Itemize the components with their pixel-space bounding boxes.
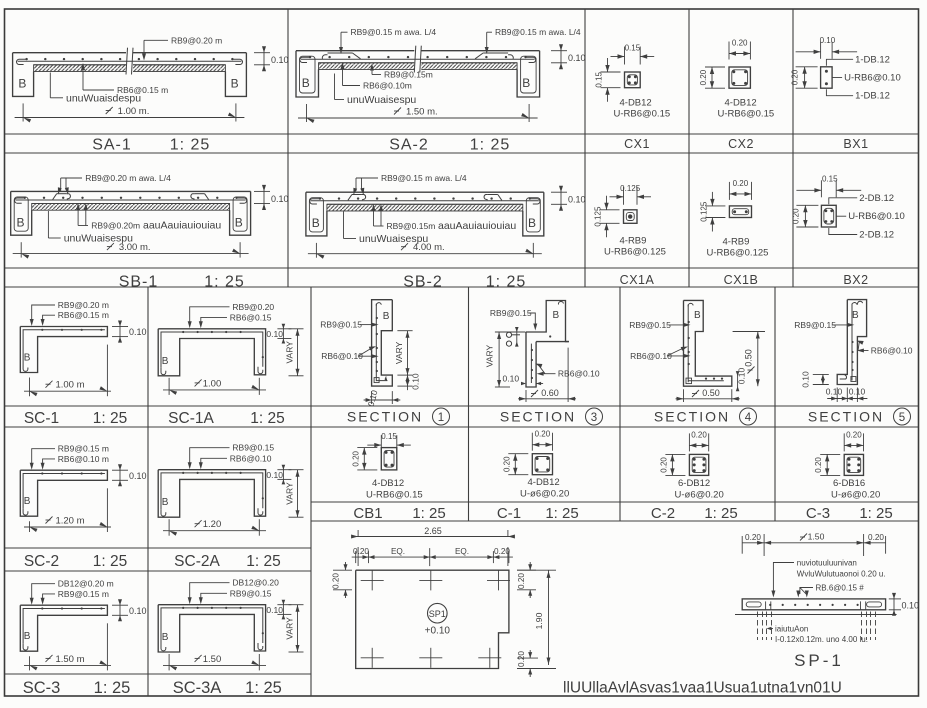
svg-text:BX2: BX2 <box>843 273 868 287</box>
svg-text:CX1A: CX1A <box>620 273 655 287</box>
svg-text:iaiutuAon: iaiutuAon <box>775 625 808 634</box>
SC-2A rebar bar with dots <box>161 473 263 509</box>
grid vertical: SCA/right-area divider <box>310 287 312 696</box>
section3 hook top right <box>558 301 563 304</box>
svg-text:1: 25: 1: 25 <box>412 505 445 522</box>
C-1 stirrup tie <box>535 457 550 472</box>
svg-text:0.10: 0.10 <box>503 374 520 384</box>
SC-3A span dim 1.50 <box>168 654 170 670</box>
grid vertical: section4/5 divider <box>774 287 776 521</box>
svg-text:aauAauiauiouiau: aauAauiauiouiau <box>438 220 516 232</box>
svg-text:0.125: 0.125 <box>699 201 708 222</box>
svg-text:1: 25: 1: 25 <box>250 410 284 427</box>
BX2 top bar label 2-DB.12 <box>829 198 857 205</box>
CB1 stirrup tie <box>384 450 394 467</box>
svg-text:RB9@0.15m: RB9@0.15m <box>387 221 436 231</box>
svg-text:unuWuaisdespu: unuWuaisdespu <box>66 93 141 105</box>
svg-text:0.20: 0.20 <box>868 533 884 542</box>
BX2 stirrup tie <box>824 208 834 224</box>
svg-text:1: 25: 1: 25 <box>245 679 282 697</box>
SA-1 thickness dim 0.10 <box>254 52 270 54</box>
SC-1 span dim 1.00 m <box>29 378 31 397</box>
SC-1A rebar bar with dots <box>161 332 263 368</box>
SA-2 slab centre break line <box>414 46 421 73</box>
svg-text:B: B <box>852 310 859 321</box>
svg-text:RB9@0.15: RB9@0.15 <box>232 443 274 453</box>
svg-text:0.20: 0.20 <box>494 547 510 556</box>
svg-text:SC-2: SC-2 <box>24 553 59 570</box>
section3 stub thickness dim 0.10 <box>516 328 518 346</box>
SA-2 precast plank hatched band <box>319 63 518 70</box>
svg-text:0.20: 0.20 <box>517 651 526 667</box>
svg-text:RB9@0.15: RB9@0.15 <box>490 308 532 318</box>
svg-text:1.50: 1.50 <box>808 532 825 542</box>
svg-text:1: 25: 1: 25 <box>859 505 892 522</box>
section3 bottom dim 0.60 <box>525 390 527 402</box>
svg-text:2-DB.12: 2-DB.12 <box>859 193 894 204</box>
svg-text:U-ø6@0.20: U-ø6@0.20 <box>520 489 569 500</box>
pile slab detail SP-1 outline <box>742 599 885 610</box>
svg-text:1: 25: 1: 25 <box>470 137 511 154</box>
svg-text:DB12@0.20 m: DB12@0.20 m <box>58 579 114 589</box>
svg-text:2-DB.12: 2-DB.12 <box>859 230 894 241</box>
svg-text:B: B <box>162 497 169 508</box>
SB-1 beam stirrups <box>14 197 28 231</box>
grid vertical: CX1/CX2 divider <box>688 9 690 287</box>
SP1 bubble label <box>428 603 448 623</box>
SB-2 thickness dim 0.10 <box>551 191 567 193</box>
SB-1 span dimension 3.00 m. <box>20 242 22 257</box>
column section CX1A outline <box>624 210 638 224</box>
svg-text:0.20: 0.20 <box>535 430 551 439</box>
svg-text:U-RB6@0.125: U-RB6@0.125 <box>707 248 769 259</box>
section4 bottom dim 0.50 <box>683 389 685 402</box>
C-3 rebar dots <box>848 458 851 461</box>
svg-text:B: B <box>528 216 536 230</box>
svg-text:RB6@0.15: RB6@0.15 <box>230 312 272 322</box>
CX1B rebar dots <box>733 210 736 213</box>
svg-text:0.10: 0.10 <box>737 367 747 384</box>
svg-text:1.50 m.: 1.50 m. <box>406 107 438 118</box>
svg-text:SP1: SP1 <box>429 609 446 619</box>
svg-text:SC-1A: SC-1A <box>168 410 214 427</box>
svg-text:4-RB9: 4-RB9 <box>620 236 647 247</box>
svg-text:0.20: 0.20 <box>846 430 862 439</box>
SC-2 span dim 1.20 m <box>29 521 31 532</box>
SA-2 span dimension 1.50 m. <box>306 104 308 122</box>
svg-text:1.50: 1.50 <box>203 654 222 665</box>
svg-text:B: B <box>522 76 530 90</box>
section3 rebar line and dots <box>530 344 532 383</box>
svg-text:U-RB6@0.15: U-RB6@0.15 <box>614 109 671 120</box>
SC-3A rebar bar with dots <box>161 608 263 644</box>
CB1 rebar dots <box>385 451 388 454</box>
SP-1 thickness dim 0.10 <box>889 598 901 600</box>
precast slab section SA-1 outline <box>13 52 247 54</box>
svg-text:0.15: 0.15 <box>822 174 838 183</box>
washing-slab plan SP1 outline <box>356 570 509 668</box>
svg-text:1.90: 1.90 <box>534 612 544 629</box>
svg-text:RB.6@0.15 #: RB.6@0.15 # <box>816 584 865 593</box>
SC-1A span dim 1.00 <box>168 378 170 395</box>
svg-text:RB9@0.20: RB9@0.20 <box>232 302 274 312</box>
C-3 stirrup tie <box>847 457 861 472</box>
svg-text:VARY: VARY <box>285 482 295 505</box>
svg-text:B: B <box>302 76 310 90</box>
svg-text:CB1: CB1 <box>353 505 382 522</box>
svg-text:B: B <box>24 353 31 364</box>
CX1 stirrup tie <box>627 75 637 85</box>
SP-1 pile top edge lines <box>765 601 767 609</box>
svg-text:RB9@0.15 m: RB9@0.15 m <box>58 589 109 599</box>
SA-1 span dimension 1.00 m. <box>22 103 24 121</box>
svg-text:RB6@0.10: RB6@0.10 <box>230 453 272 463</box>
svg-text:0.10: 0.10 <box>271 194 289 204</box>
svg-text:1.00 m.: 1.00 m. <box>118 106 150 117</box>
svg-text:+0.10: +0.10 <box>425 626 451 637</box>
kerb section SC-2 outline <box>20 470 107 516</box>
beam section BX1 outline <box>821 67 833 88</box>
BX2 stirrup label U-RB6@0.10 <box>836 215 846 217</box>
svg-text:1: 25: 1: 25 <box>204 274 245 291</box>
svg-text:U-RB6@0.15: U-RB6@0.15 <box>366 490 423 501</box>
svg-text:RB9@0.15 m awa. L/4: RB9@0.15 m awa. L/4 <box>495 27 581 37</box>
SA-1 precast plank hatched band <box>34 65 226 72</box>
grid vertical: SC/SCA divider <box>147 287 149 696</box>
svg-text:RB6@0.10 m: RB6@0.10 m <box>58 454 109 464</box>
svg-text:U-RB6@0.15: U-RB6@0.15 <box>718 109 775 120</box>
SA-2 top support bars with hooks <box>322 55 327 59</box>
svg-text:SECTION: SECTION <box>654 409 730 425</box>
SA-1 bottom rebar line with hooks <box>18 60 242 62</box>
grid line: row3 title strip top <box>5 405 919 407</box>
grid line: row1 title strip top <box>5 133 919 135</box>
svg-text:RB9@0.15m: RB9@0.15m <box>384 70 433 80</box>
kerb section SC-3 outline <box>20 605 107 651</box>
svg-text:4-DB12: 4-DB12 <box>528 477 560 488</box>
svg-text:B: B <box>18 77 26 91</box>
section4 0.10 slab dim <box>737 373 739 389</box>
CX2 rebar dots <box>732 70 735 73</box>
CX1B stirrup tie <box>732 209 749 215</box>
BX2 rebar dots <box>825 209 828 212</box>
svg-text:0.20: 0.20 <box>699 69 708 85</box>
svg-text:4-RB9: 4-RB9 <box>723 237 750 248</box>
svg-text:CX1: CX1 <box>624 137 650 151</box>
svg-text:1: 25: 1: 25 <box>93 553 127 570</box>
CX1A stirrup tie <box>626 213 634 221</box>
svg-text:RB9@0.15 m: RB9@0.15 m <box>58 444 109 454</box>
SC-3 span dim 1.50 m <box>29 656 31 670</box>
svg-text:SA-2: SA-2 <box>389 137 429 154</box>
svg-text:0.10: 0.10 <box>129 606 147 616</box>
svg-text:RB6@0.10: RB6@0.10 <box>321 351 363 361</box>
CX1A rebar dots <box>628 214 632 218</box>
svg-text:EQ.: EQ. <box>455 547 469 556</box>
svg-text:B: B <box>235 215 243 229</box>
svg-text:B: B <box>162 632 169 643</box>
svg-text:1: 25: 1: 25 <box>94 679 131 697</box>
svg-text:0.10: 0.10 <box>266 329 283 339</box>
svg-text:SC-3A: SC-3A <box>173 679 222 697</box>
svg-text:0.15: 0.15 <box>625 44 641 53</box>
svg-text:U-ø6@0.20: U-ø6@0.20 <box>675 489 724 500</box>
svg-text:0.20: 0.20 <box>791 69 800 85</box>
grid vertical: SA2/CX1 divider <box>584 9 586 287</box>
grid line: row2 title strip bottom <box>5 286 919 288</box>
svg-text:0.20: 0.20 <box>814 457 823 473</box>
svg-text:1-DB.12: 1-DB.12 <box>855 91 890 102</box>
svg-text:C-3: C-3 <box>806 505 830 522</box>
svg-text:0.20: 0.20 <box>332 573 341 589</box>
svg-text:C-1: C-1 <box>497 505 521 522</box>
svg-text:RB9@0.15: RB9@0.15 <box>320 320 362 330</box>
grid vertical: CX2/BX1 divider <box>792 9 794 287</box>
svg-text:1-DB.12: 1-DB.12 <box>855 54 890 65</box>
svg-text:0.20: 0.20 <box>351 450 360 466</box>
svg-text:RB9@0.15: RB9@0.15 <box>230 588 272 598</box>
svg-text:SC-2A: SC-2A <box>174 553 220 570</box>
svg-text:RB9@0.15: RB9@0.15 <box>794 320 836 330</box>
svg-text:1: 25: 1: 25 <box>704 505 737 522</box>
svg-text:0.10: 0.10 <box>266 605 283 615</box>
svg-text:RB6@0.10: RB6@0.10 <box>871 346 913 356</box>
section4 0.50 height dim <box>733 331 765 333</box>
svg-text:B: B <box>24 496 31 507</box>
svg-text:B: B <box>162 356 169 367</box>
svg-text:DB12@0.20: DB12@0.20 <box>232 578 279 588</box>
svg-text:1: 25: 1: 25 <box>486 274 527 291</box>
svg-text:EQ.: EQ. <box>391 547 405 556</box>
svg-text:nuviotuuluunivan: nuviotuuluunivan <box>797 559 857 568</box>
SB-2 precast plank hatched band <box>327 204 523 211</box>
svg-text:RB6@0.10m: RB6@0.10m <box>363 81 412 91</box>
grid vertical: section1/3 divider <box>468 287 470 521</box>
C-1 rebar dots <box>536 457 539 460</box>
SP-1 pile dashed lines <box>757 612 759 641</box>
svg-text:B: B <box>694 310 701 321</box>
svg-text:U-RB6@0.10: U-RB6@0.10 <box>844 73 901 84</box>
SB-1 top support bars with hooks <box>53 194 57 200</box>
svg-text:U-RB6@0.125: U-RB6@0.125 <box>604 247 666 258</box>
svg-text:CX2: CX2 <box>728 137 754 151</box>
svg-text:B: B <box>383 311 390 322</box>
SP-1 ground line <box>735 614 897 616</box>
SP-1 plank end hooks <box>746 602 761 607</box>
svg-text:U-ø6@0.20: U-ø6@0.20 <box>831 489 880 500</box>
svg-text:3: 3 <box>591 412 597 424</box>
svg-text:1.50 m: 1.50 m <box>55 654 84 665</box>
section4 outline <box>684 300 732 386</box>
svg-text:VARY: VARY <box>485 344 495 367</box>
svg-text:1: 25: 1: 25 <box>246 553 280 570</box>
SB-1 bottom rebar line with hooks <box>16 199 246 201</box>
svg-text:aauAauiauiouiau: aauAauiauiouiau <box>143 220 221 232</box>
svg-text:1: 25: 1: 25 <box>545 505 578 522</box>
section3 rebar hooks at left stub <box>506 332 511 337</box>
grid line: row4-left title strip top <box>5 547 312 549</box>
svg-text:1.00 m: 1.00 m <box>55 380 84 391</box>
slab section SC-1A outline <box>158 329 265 376</box>
SA-2 rebar dots <box>309 56 311 58</box>
SB-2 bottom rebar line with hooks <box>311 200 539 202</box>
BX2 bottom bar label 2-DB.12 <box>829 228 857 235</box>
kerb section SC-1 outline <box>20 327 107 373</box>
svg-text:SC-3: SC-3 <box>23 679 61 697</box>
svg-text:1: 25: 1: 25 <box>93 410 127 427</box>
svg-text:0.20: 0.20 <box>745 533 761 542</box>
svg-text:0.20: 0.20 <box>353 547 369 556</box>
column section CX2 outline <box>729 67 750 88</box>
column section CB1 outline <box>381 448 397 470</box>
svg-text:B: B <box>17 215 25 229</box>
SB-1 rebar dots <box>24 197 26 199</box>
column section C-3 outline <box>844 454 863 475</box>
SP-1 rebar dots <box>769 604 771 606</box>
grid line: row4-right title strip bottom <box>311 520 919 522</box>
svg-text:I-0.12x0.12m. uno 4.00 lu.: I-0.12x0.12m. uno 4.00 lu. <box>775 635 868 644</box>
SA-2 thickness dim 0.10 <box>551 50 567 52</box>
svg-text:4.00 m.: 4.00 m. <box>413 242 445 253</box>
section4 rebar and dots <box>687 304 689 382</box>
C-2 stirrup tie <box>692 457 706 472</box>
SA-1 rebar dots <box>25 58 27 60</box>
section5 outline <box>837 300 866 385</box>
svg-text:B: B <box>312 216 320 230</box>
column section CX1 outline <box>625 72 641 88</box>
svg-text:0.60: 0.60 <box>541 388 559 398</box>
svg-text:RB9@0.20 m: RB9@0.20 m <box>171 35 222 45</box>
svg-text:VARY: VARY <box>285 341 295 364</box>
svg-text:CX1B: CX1B <box>724 273 759 287</box>
SP1 right dim 1.90 <box>517 569 556 571</box>
svg-text:0.10: 0.10 <box>902 600 920 610</box>
SB-2 beam stirrups <box>309 198 323 232</box>
beam section BX2 outline <box>821 205 836 227</box>
section5 hook top right <box>857 301 862 304</box>
svg-text:4-DB12: 4-DB12 <box>725 98 757 109</box>
svg-text:RB9@0.15: RB9@0.15 <box>629 320 671 330</box>
svg-text:0.20: 0.20 <box>691 430 707 439</box>
svg-text:B: B <box>231 77 239 91</box>
svg-text:0.10: 0.10 <box>801 371 811 388</box>
SC-2 rebar bar with dots <box>23 474 105 509</box>
SA-1 slab centre break line <box>126 48 133 75</box>
svg-text:B: B <box>24 631 31 642</box>
grid line: row1 title strip bottom <box>5 152 919 154</box>
svg-text:C-2: C-2 <box>651 505 675 522</box>
C-2 rebar dots <box>693 458 696 461</box>
SB-2 span dimension 4.00 m. <box>315 243 317 258</box>
svg-text:0.20: 0.20 <box>502 456 511 472</box>
svg-text:RB6@0.10: RB6@0.10 <box>630 351 672 361</box>
precast slab section SA-2 outline <box>296 50 540 52</box>
svg-text:RB9@0.20m: RB9@0.20m <box>91 221 140 231</box>
svg-text:RB9@0.20 m: RB9@0.20 m <box>58 300 109 310</box>
slab section SC-2A outline <box>158 470 265 518</box>
svg-text:B: B <box>553 310 560 321</box>
svg-text:0.20: 0.20 <box>517 573 526 589</box>
svg-text:3.00 m.: 3.00 m. <box>119 242 151 253</box>
grid line: row2 title strip top <box>5 267 919 269</box>
column section C-2 outline <box>689 454 708 475</box>
grid line: row5-left title strip top <box>5 673 312 675</box>
SC-1 rebar bar with dots <box>23 330 105 365</box>
SB-1 precast plank hatched band <box>32 204 230 211</box>
BX1 top bar label 1-DB.12 <box>826 59 853 66</box>
svg-text:WvluWulutuaonoi 0.20 u.: WvluWulutuaonoi 0.20 u. <box>797 570 886 579</box>
svg-text:SECTION: SECTION <box>808 409 884 425</box>
section1 outline <box>372 300 393 386</box>
BX1 bottom bar label 1-DB.12 <box>826 89 853 96</box>
SC-1 thickness dim 0.10 <box>112 326 128 328</box>
svg-text:0.15: 0.15 <box>381 432 397 441</box>
section3 outline <box>526 301 569 342</box>
svg-text:0.10: 0.10 <box>271 55 289 65</box>
SP1 top dim 2.65 <box>357 547 359 566</box>
svg-text:VARY: VARY <box>394 341 404 364</box>
column section CX1B outline <box>729 206 751 218</box>
svg-text:4: 4 <box>745 412 752 424</box>
svg-text:5: 5 <box>899 412 905 424</box>
svg-text:RB9@0.15 m awa. L/4: RB9@0.15 m awa. L/4 <box>351 27 437 37</box>
svg-text:1.20 m: 1.20 m <box>55 516 84 527</box>
svg-text:SA-1: SA-1 <box>92 137 132 154</box>
grid line: row3 title strip bottom <box>5 426 919 428</box>
section5 foot hook and bar <box>840 375 847 379</box>
SB-2 rebar dots <box>319 197 321 199</box>
svg-text:6-DB12: 6-DB12 <box>678 478 710 489</box>
svg-text:RB6@0.15 m: RB6@0.15 m <box>58 310 109 320</box>
SC-2 thickness dim 0.10 <box>112 469 128 471</box>
svg-text:0.10: 0.10 <box>820 36 836 45</box>
grid vertical: section3/4 divider <box>619 287 621 521</box>
grid line: row4-right title strip top <box>311 501 919 503</box>
svg-text:SC-1: SC-1 <box>24 410 59 427</box>
svg-text:U-RB6@0.10: U-RB6@0.10 <box>848 211 905 222</box>
svg-text:0.10: 0.10 <box>129 471 147 481</box>
svg-text:2.65: 2.65 <box>424 526 442 536</box>
svg-text:4-DB12: 4-DB12 <box>620 98 652 109</box>
svg-text:1.00: 1.00 <box>203 378 222 389</box>
svg-text:llUUllaAvlAsvas1vaa1Usua1utna1: llUUllaAvlAsvas1vaa1Usua1utna1vn01U <box>563 680 842 697</box>
svg-text:0.20: 0.20 <box>733 179 749 188</box>
svg-text:SP-1: SP-1 <box>794 651 844 670</box>
svg-text:SECTION: SECTION <box>500 409 576 425</box>
svg-text:1: 25: 1: 25 <box>170 137 211 154</box>
SB-1 thickness dim 0.10 <box>254 190 270 192</box>
svg-text:SB-2: SB-2 <box>403 274 443 291</box>
svg-text:RB9@0.20 m awa. L/4: RB9@0.20 m awa. L/4 <box>85 173 171 183</box>
svg-text:0.50: 0.50 <box>702 388 720 398</box>
grid line: row4-left title strip bottom <box>5 570 312 572</box>
svg-text:RB9@0.15 m awa. L/4: RB9@0.15 m awa. L/4 <box>381 173 467 183</box>
SP-1 top dim row <box>742 542 885 544</box>
svg-text:BX1: BX1 <box>843 137 868 151</box>
CX1 rebar dots <box>628 75 631 78</box>
precast slab section SB-1 outline <box>11 190 251 192</box>
BX1 stirrup label U-RB6@0.10 <box>832 77 842 79</box>
SA-2 beam stirrups <box>300 56 316 93</box>
svg-text:0.10: 0.10 <box>129 327 147 337</box>
SC-2A span dim 1.20 <box>168 519 170 536</box>
SC-3 thickness dim 0.10 <box>112 604 128 606</box>
BX1 rebar dots <box>825 70 828 73</box>
SC-3 rebar bar with dots <box>23 609 105 644</box>
svg-text:0.10: 0.10 <box>568 195 586 205</box>
svg-text:0.20: 0.20 <box>659 457 668 473</box>
grid vertical: SA1/SA2 divider <box>287 9 289 287</box>
